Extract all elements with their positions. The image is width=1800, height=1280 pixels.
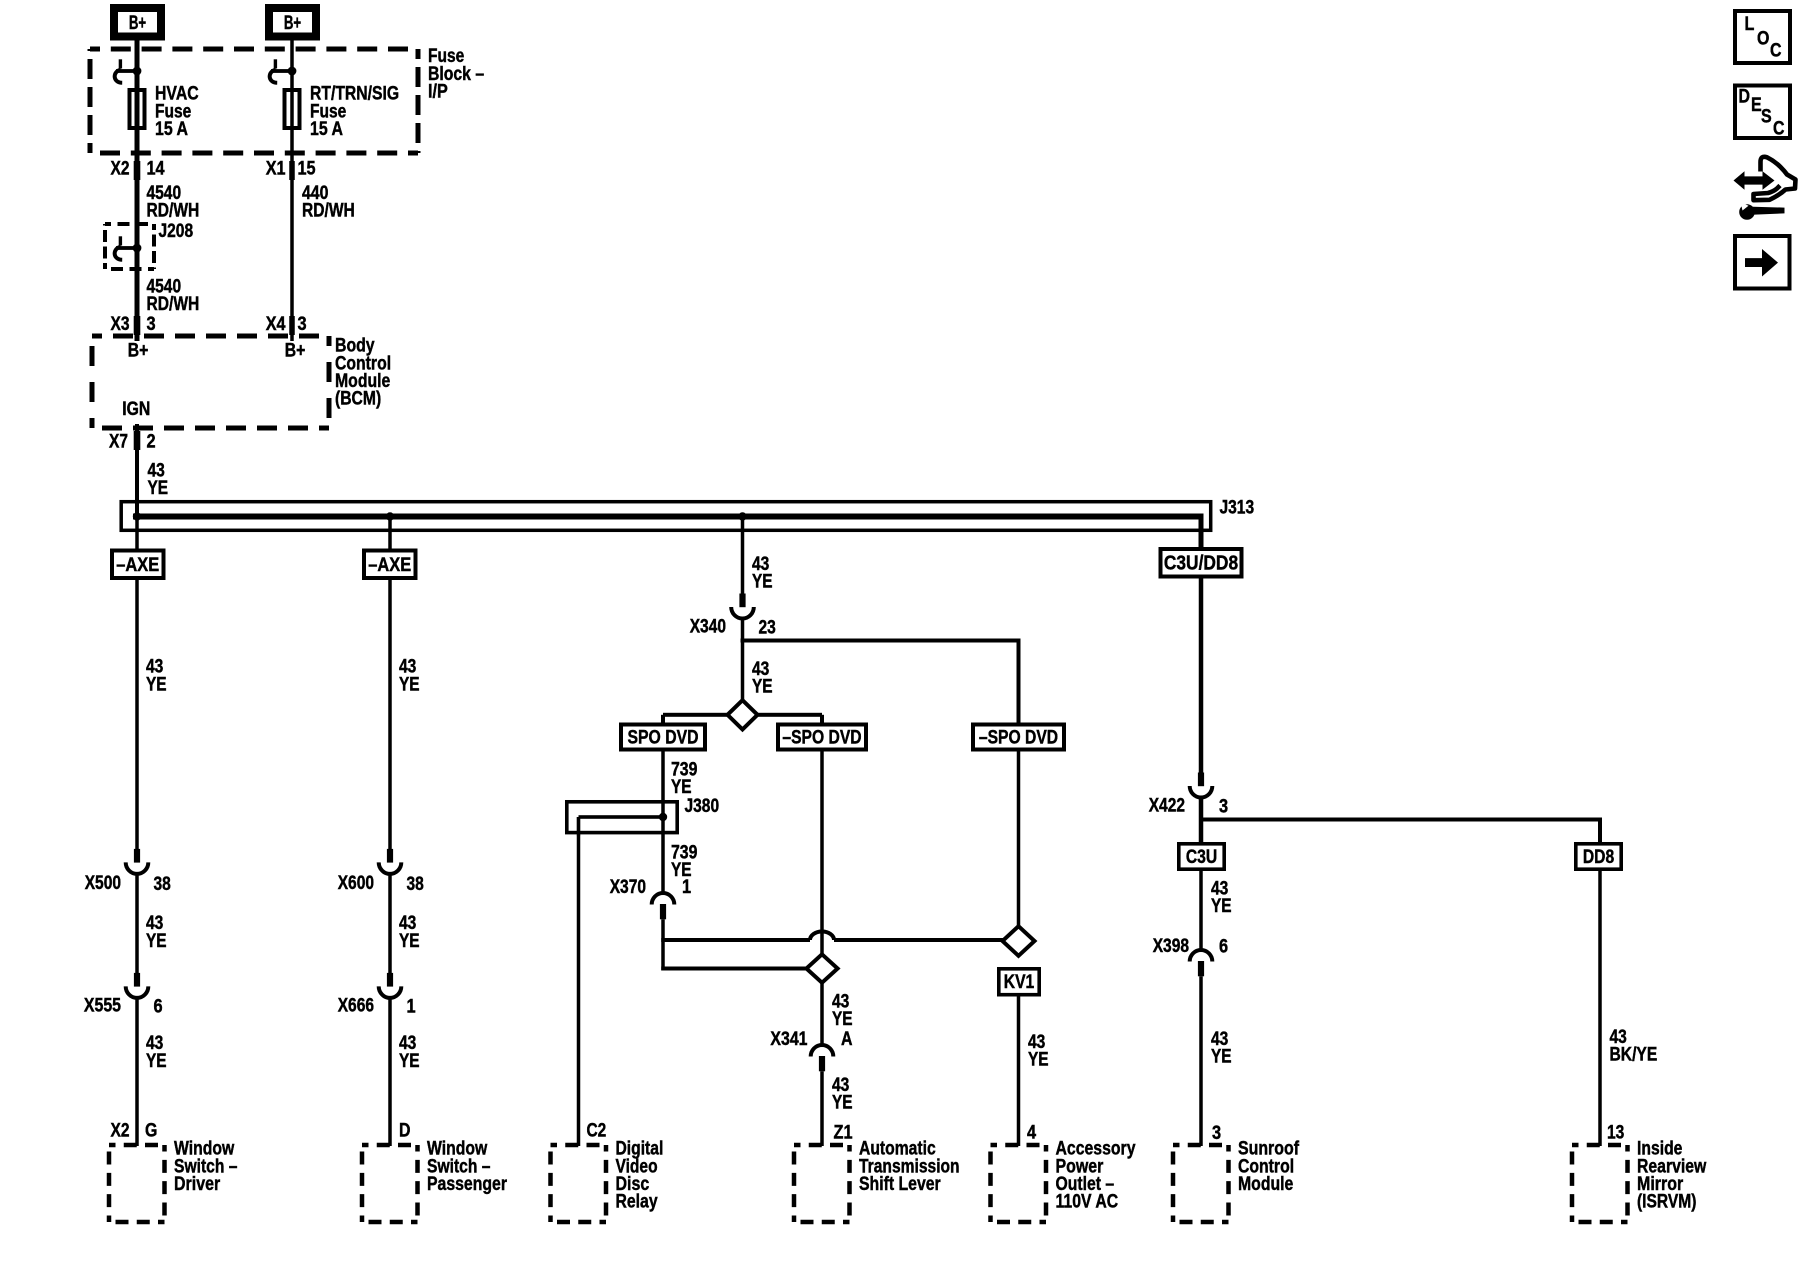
wire 43 YE from BCM to J313: [134, 424, 141, 516]
connector X4 pin 3: [266, 314, 307, 335]
connector X370 pin 1: [610, 877, 692, 919]
wire 739 YE from J380 to X370: [661, 817, 665, 893]
svg-text:3: 3: [147, 314, 156, 335]
branch wire to DD8: [1201, 818, 1602, 844]
svg-text:3: 3: [298, 314, 307, 335]
wire 43 YE X341 to shift lever: [820, 1071, 824, 1146]
svg-text:X2: X2: [111, 159, 130, 180]
junction dot J313 left: [133, 512, 141, 520]
svg-text:X2: X2: [111, 1121, 130, 1142]
svg-text:L: L: [1745, 14, 1755, 35]
wire 43 YE column 2 upper: [388, 517, 392, 551]
svg-text:4: 4: [1027, 1123, 1036, 1144]
splice pack J313 outer box: [121, 502, 1211, 531]
wire label 43 YE column 1 lower: [146, 913, 167, 952]
connector X422 pin 3: [1149, 773, 1228, 818]
connector X2 pin 14: [111, 159, 165, 180]
svg-text:B+: B+: [128, 341, 149, 362]
svg-text:X7: X7: [109, 432, 128, 453]
wire label 4540 RD/WH upper: [147, 183, 200, 222]
digital video disc relay label: [616, 1139, 664, 1213]
connector X666 pin 1: [338, 973, 416, 1018]
svg-text:I/P: I/P: [428, 81, 448, 102]
fuse -SPO DVD box: [778, 725, 866, 750]
junction dot J380: [659, 813, 667, 821]
wire 43 YE column 1 to X500: [135, 580, 139, 849]
svg-text:X500: X500: [85, 873, 121, 894]
svg-text:15 A: 15 A: [310, 119, 343, 140]
svg-text:38: 38: [407, 874, 424, 895]
wire label 440 RD/WH: [302, 183, 355, 222]
accessory power outlet dashed connector box: [991, 1145, 1047, 1222]
splice J208 hook symbol: [115, 236, 142, 259]
wire label 739 YE upper: [671, 759, 697, 798]
connector -AXE column 1: [112, 551, 164, 579]
svg-text:1: 1: [407, 997, 416, 1018]
svg-text:3: 3: [1219, 797, 1228, 818]
fuse block label: [428, 46, 484, 102]
wire X422 to C3U box: [1199, 797, 1204, 843]
sidebar vehicle diagnostic icon: [1734, 157, 1796, 220]
svg-text:YE: YE: [752, 677, 773, 698]
svg-text:YE: YE: [146, 674, 167, 695]
pin D at window switch passenger: [399, 1121, 411, 1142]
wire label 739 YE lower: [671, 843, 697, 882]
wire label 43 YE KV1 column: [1028, 1032, 1049, 1071]
wire label 43 YE sunroof column: [1211, 1029, 1232, 1068]
branch wire X370 to KV1 diamond with hop: [661, 932, 1003, 943]
svg-text:X555: X555: [84, 996, 121, 1017]
svg-text:B+: B+: [285, 341, 306, 362]
wire 43 YE C3U/DD8 to X422: [1199, 579, 1204, 774]
wire 43 YE column 1 upper: [135, 517, 139, 551]
connector X341 pin A: [770, 1029, 852, 1071]
svg-text:Relay: Relay: [616, 1192, 658, 1213]
automatic transmission shift lever label: [859, 1139, 960, 1195]
wire label 4540 RD/WH lower: [147, 277, 200, 316]
wire 43 YE X500 to X555: [135, 874, 139, 973]
wire label 43 YE column 1 bottom: [146, 1033, 167, 1072]
svg-text:X666: X666: [338, 996, 374, 1017]
wire label 43 YE above X340: [752, 554, 773, 593]
wire 43 YE KV1 to accessory outlet: [1017, 997, 1021, 1147]
svg-text:–AXE: –AXE: [116, 554, 159, 576]
svg-text:38: 38: [154, 874, 171, 895]
connector X398 pin 6: [1153, 936, 1228, 976]
svg-text:13: 13: [1607, 1123, 1624, 1144]
connector DD8 box: [1576, 844, 1621, 869]
svg-text:X600: X600: [338, 873, 374, 894]
splice pack J380 outer box: [567, 802, 677, 833]
svg-text:X3: X3: [111, 314, 130, 335]
pin C2 at digital video disc relay: [587, 1121, 607, 1142]
svg-text:15 A: 15 A: [155, 119, 188, 140]
svg-text:J208: J208: [159, 221, 194, 242]
splice pack J380 label: [685, 796, 720, 817]
wire label 43 YE (BCM output): [148, 461, 169, 500]
fuse block I/P dashed enclosure: [90, 49, 418, 153]
branch wire to -SPO DVD fuse: [757, 713, 825, 724]
current split diamond column 3: [728, 700, 758, 729]
wire 43 YE X555 to window switch driver: [135, 998, 139, 1146]
automatic transmission shift lever dashed connector box: [794, 1145, 850, 1222]
connector C3U box: [1179, 844, 1224, 869]
wire 739 YE J380 to video disc relay: [577, 836, 581, 1146]
connector X2 pin G at window switch driver: [111, 1121, 158, 1142]
connector C3U/DD8 box: [1161, 549, 1242, 577]
connector -AXE column 2: [364, 551, 416, 579]
svg-text:C: C: [1773, 119, 1785, 140]
pin 4 at accessory power outlet: [1027, 1123, 1036, 1144]
wire label 43 YE column 2 bottom: [399, 1033, 420, 1072]
wire 739 YE from SPO DVD to J380: [661, 752, 665, 818]
connector X500 pin 38: [85, 849, 171, 895]
BCM pin label B+ right: [285, 341, 306, 362]
svg-text:YE: YE: [399, 931, 420, 952]
junction dot J313 mid-left: [386, 512, 394, 520]
svg-text:(BCM): (BCM): [335, 389, 381, 410]
svg-text:C3U: C3U: [1186, 847, 1217, 868]
wire 440 RD/WH from B+ to BCM (right feed): [289, 30, 295, 341]
svg-text:D: D: [399, 1121, 411, 1142]
svg-text:SPO DVD: SPO DVD: [628, 727, 699, 748]
pin 3 at sunroof control module: [1212, 1123, 1221, 1144]
accessory power outlet label: [1056, 1139, 1136, 1213]
wire 43 YE X398 to sunroof module: [1199, 976, 1203, 1146]
svg-text:B+: B+: [284, 13, 301, 34]
sidebar next arrow button: [1735, 236, 1790, 289]
svg-text:X1: X1: [266, 159, 286, 180]
wire label 43 YE below X341: [832, 1075, 853, 1114]
svg-text:14: 14: [147, 159, 165, 180]
wire 43 YE from J313 to X340: [741, 517, 745, 595]
wire label 43 YE column 2: [399, 657, 420, 696]
svg-text:Z1: Z1: [834, 1123, 853, 1144]
bus hook feed at HVAC fuse: [115, 59, 142, 83]
wire 43 BK/YE DD8 to ISRVM: [1598, 871, 1602, 1146]
connector X7 pin 2: [109, 432, 156, 453]
inside rearview mirror label: [1637, 1139, 1706, 1213]
svg-text:X370: X370: [610, 877, 646, 898]
body control module BCM dashed box: [92, 336, 329, 428]
svg-text:Shift Lever: Shift Lever: [859, 1174, 941, 1195]
svg-text:YE: YE: [671, 777, 692, 798]
svg-text:(ISRVM): (ISRVM): [1637, 1192, 1696, 1213]
svg-text:KV1: KV1: [1004, 972, 1035, 993]
svg-text:X340: X340: [690, 617, 726, 638]
current split diamond KV1 column: [1003, 926, 1035, 956]
svg-text:–SPO DVD: –SPO DVD: [782, 727, 861, 748]
svg-text:O: O: [1757, 29, 1769, 50]
wire 43 YE X600 to X666: [388, 874, 392, 973]
svg-text:D: D: [1739, 87, 1751, 108]
window switch driver dashed connector box: [109, 1145, 165, 1222]
pin Z1 at shift lever: [834, 1123, 853, 1144]
wire label 43 BK/YE: [1610, 1027, 1658, 1066]
svg-text:J380: J380: [685, 796, 720, 817]
svg-text:110V AC: 110V AC: [1056, 1192, 1119, 1213]
power symbol B+ (RT/TRN/SIG feed): [269, 8, 316, 37]
svg-text:–AXE: –AXE: [368, 554, 411, 576]
branch wire to third SPO DVD fuse: [741, 639, 1021, 725]
splice pack J313 bus bar: [133, 514, 1204, 548]
svg-text:3: 3: [1212, 1123, 1221, 1144]
svg-text:YE: YE: [832, 1093, 853, 1114]
fuse HVAC 15A element: [130, 90, 145, 128]
svg-text:YE: YE: [1211, 896, 1232, 917]
connector X555 pin 6: [84, 973, 163, 1018]
svg-text:2: 2: [147, 432, 156, 453]
svg-text:X398: X398: [1153, 936, 1189, 957]
wire 43 YE C3U to X398: [1199, 871, 1203, 950]
wire 43 YE X666 to window switch passenger: [388, 998, 392, 1146]
svg-text:–SPO DVD: –SPO DVD: [979, 727, 1058, 748]
splice pack J380 bus bar: [577, 815, 663, 836]
svg-text:Module: Module: [1238, 1174, 1293, 1195]
fuse RT/TRN/SIG 15A element: [285, 90, 300, 128]
wire label 43 YE below X340: [752, 659, 773, 698]
svg-text:YE: YE: [832, 1009, 853, 1030]
relay KV1 box: [999, 969, 1039, 995]
fuse RT/TRN/SIG label: [310, 84, 399, 140]
junction dot J313 mid: [738, 512, 746, 520]
svg-text:YE: YE: [1028, 1050, 1049, 1071]
branch wire X370 to shift lever diamond: [661, 967, 807, 971]
wire label 43 YE above X341: [832, 991, 853, 1030]
svg-text:6: 6: [1219, 937, 1228, 958]
power symbol B+ (HVAC feed): [114, 8, 161, 37]
svg-text:X422: X422: [1149, 796, 1185, 817]
fuse -SPO DVD box right: [973, 725, 1064, 750]
svg-text:RD/WH: RD/WH: [302, 201, 355, 222]
splice J208 dashed box: [105, 224, 154, 269]
svg-text:RD/WH: RD/WH: [147, 294, 200, 315]
current split diamond shift lever column: [806, 954, 837, 982]
connector X3 pin 3: [111, 314, 156, 335]
sunroof control module label: [1238, 1139, 1300, 1195]
svg-text:DD8: DD8: [1583, 847, 1614, 868]
wire 43 YE column 2 to X600: [388, 580, 392, 849]
svg-text:YE: YE: [1211, 1047, 1232, 1068]
window switch driver label: [174, 1139, 238, 1195]
svg-text:B+: B+: [129, 13, 146, 34]
svg-text:1: 1: [682, 877, 691, 898]
connector X1 pin 15: [266, 159, 316, 180]
wire 43 YE diamond to X341: [820, 983, 824, 1046]
sunroof control module dashed connector box: [1173, 1145, 1229, 1222]
svg-text:YE: YE: [752, 572, 773, 593]
BCM pin label IGN: [122, 399, 150, 420]
svg-text:YE: YE: [146, 931, 167, 952]
wire -SPO DVD right down to diamond: [1017, 752, 1021, 927]
sidebar DESC button: [1735, 86, 1790, 140]
wire label 43 YE above X398: [1211, 879, 1232, 918]
BCM name label: [335, 336, 391, 410]
svg-text:J313: J313: [1220, 498, 1255, 519]
svg-text:RD/WH: RD/WH: [147, 201, 200, 222]
bus hook feed at RT/TRN/SIG fuse: [270, 59, 297, 83]
svg-text:C2: C2: [587, 1121, 607, 1142]
branch wire to SPO DVD fuse: [661, 713, 729, 724]
svg-text:6: 6: [154, 997, 163, 1018]
digital video disc relay dashed connector box: [551, 1145, 607, 1222]
svg-text:A: A: [841, 1029, 853, 1050]
inside rearview mirror dashed connector box: [1572, 1145, 1628, 1222]
svg-text:Passenger: Passenger: [427, 1174, 507, 1195]
fuse HVAC label: [155, 84, 199, 140]
svg-text:YE: YE: [148, 478, 169, 499]
window switch passenger dashed connector box: [362, 1145, 418, 1222]
svg-text:Driver: Driver: [174, 1174, 221, 1195]
sidebar LOC button: [1735, 11, 1790, 63]
BCM pin label B+ left: [128, 341, 149, 362]
svg-text:X341: X341: [770, 1029, 807, 1050]
svg-text:C3U/DD8: C3U/DD8: [1164, 552, 1238, 575]
connector X600 pin 38: [338, 849, 424, 895]
svg-text:YE: YE: [399, 1051, 420, 1072]
connector X340 pin 23: [690, 594, 776, 639]
wire from X370 down to branch corners: [661, 919, 665, 970]
wire -SPO DVD down to diamond: [820, 752, 824, 955]
svg-text:15: 15: [298, 159, 316, 180]
fuse SPO DVD box: [621, 725, 705, 750]
wire 43 YE X340 to diamond: [741, 618, 745, 700]
svg-text:X4: X4: [266, 314, 286, 335]
svg-text:YE: YE: [146, 1051, 167, 1072]
svg-text:BK/YE: BK/YE: [1610, 1045, 1658, 1066]
splice pack J313 label: [1220, 498, 1255, 519]
wire label 43 YE column 2 lower: [399, 913, 420, 952]
splice J208 label: [159, 221, 194, 242]
wire 4540 RD/WH from B+ to BCM (left feed): [134, 30, 141, 341]
pin 13 at inside rearview mirror: [1607, 1123, 1624, 1144]
svg-text:S: S: [1761, 107, 1772, 128]
svg-text:IGN: IGN: [122, 399, 150, 420]
wire label 43 YE column 1: [146, 657, 167, 696]
svg-text:YE: YE: [399, 674, 420, 695]
window switch passenger label: [427, 1139, 507, 1195]
svg-text:23: 23: [759, 618, 776, 639]
svg-text:C: C: [1770, 41, 1782, 62]
svg-text:G: G: [145, 1121, 157, 1142]
